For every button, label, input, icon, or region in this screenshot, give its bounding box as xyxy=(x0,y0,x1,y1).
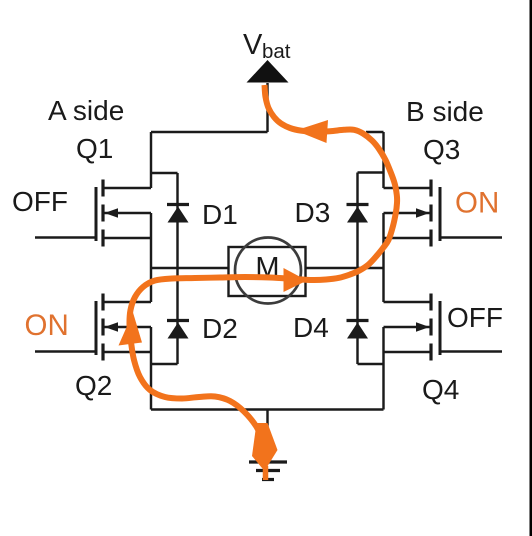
wire middle rail left xyxy=(151,267,229,269)
wire bottom rail xyxy=(151,408,384,410)
motor M xyxy=(229,238,306,304)
wire Vbat stem xyxy=(266,83,268,132)
wire top rail left of Vbat xyxy=(151,131,268,133)
orange arrowhead into Vbat xyxy=(296,120,329,143)
svg-text:Q4: Q4 xyxy=(422,374,459,405)
wire Q4 source vertical xyxy=(382,327,384,410)
wire middle rail right xyxy=(306,267,384,269)
wire Q2 drain vertical xyxy=(150,268,152,302)
wire D3 vertical xyxy=(356,173,358,269)
wire D1 vertical xyxy=(176,173,178,268)
transistor Q3 xyxy=(384,180,503,247)
svg-text:Q1: Q1 xyxy=(76,133,113,164)
orange arrowhead into ground xyxy=(252,423,278,480)
svg-text:D2: D2 xyxy=(202,313,238,344)
wire D3 top branch xyxy=(358,171,384,173)
wire Q3 source vertical xyxy=(382,213,384,268)
transistor Q4 xyxy=(384,294,503,361)
svg-text:D1: D1 xyxy=(202,199,238,230)
wire Q4 drain vertical xyxy=(382,268,384,302)
svg-text:D4: D4 xyxy=(293,312,329,343)
wire D2 vertical xyxy=(176,268,178,364)
ground xyxy=(249,462,287,480)
svg-text:bat: bat xyxy=(262,40,291,63)
wire ground stem xyxy=(266,410,268,462)
wire D4 bottom branch xyxy=(358,363,384,365)
svg-text:OFF: OFF xyxy=(447,302,503,333)
wire orange current path xyxy=(129,85,397,463)
wire D4 vertical xyxy=(356,268,358,364)
wire Q1 source vertical xyxy=(150,213,152,268)
diode D2 xyxy=(167,321,189,339)
svg-text:V: V xyxy=(243,29,263,61)
orange arrowhead through motor xyxy=(284,268,308,292)
diode D4 xyxy=(347,321,369,339)
wire D2 bottom branch xyxy=(151,363,178,365)
transistor Q1 xyxy=(35,180,151,247)
wire D1 top branch xyxy=(151,172,178,174)
wire top rail right stub xyxy=(366,131,384,133)
diode D1 xyxy=(167,205,189,223)
wire Q2 source vertical xyxy=(150,327,152,410)
svg-text:Q3: Q3 xyxy=(423,134,460,165)
svg-text:A side: A side xyxy=(48,95,124,126)
svg-text:OFF: OFF xyxy=(12,186,68,217)
border strip right edge xyxy=(530,0,532,536)
orange arrowhead up through Q2 xyxy=(119,313,143,346)
diode D3 xyxy=(347,205,369,223)
transistor Q2 xyxy=(35,294,151,361)
power Vbat symbol xyxy=(243,29,291,83)
svg-text:D3: D3 xyxy=(295,197,331,228)
svg-text:ON: ON xyxy=(25,309,69,342)
wire Q1 drain vertical xyxy=(150,132,152,188)
svg-text:B side: B side xyxy=(406,96,484,127)
svg-text:ON: ON xyxy=(455,187,499,220)
svg-text:Q2: Q2 xyxy=(75,370,112,401)
wire Q3 drain vertical xyxy=(382,132,384,188)
